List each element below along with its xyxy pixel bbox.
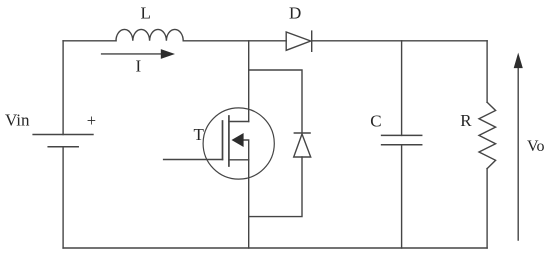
svg-text:Vo: Vo — [527, 138, 545, 155]
wire resistor branch lower — [486, 169, 488, 248]
transistor T bulk tail — [243, 140, 248, 160]
svg-text:Vin: Vin — [5, 110, 30, 129]
wire MOSFET drain vertical — [248, 41, 250, 122]
wire top rail middle segment — [183, 40, 286, 42]
wire top rail right segment — [312, 40, 487, 42]
transistor T source connection — [229, 159, 249, 161]
battery Vin plate short — [48, 146, 78, 148]
svg-text:C: C — [370, 112, 381, 131]
transistor T bulk arrow head — [232, 133, 244, 147]
svg-text:+: + — [87, 111, 96, 130]
svg-text:I: I — [136, 56, 142, 75]
diode D triangle — [286, 32, 311, 50]
body diode cathode bar — [294, 132, 310, 134]
wire left rail lower — [62, 147, 64, 248]
resistor R zigzag — [479, 102, 496, 168]
svg-text:L: L — [141, 4, 151, 23]
transistor T gate bar — [222, 121, 224, 160]
capacitor C plate top — [382, 134, 422, 136]
svg-text:D: D — [289, 4, 301, 23]
wire capacitor branch upper — [401, 41, 403, 136]
wire body-diode branch top — [249, 70, 302, 133]
transistor T drain connection — [229, 121, 249, 123]
wire bottom rail — [63, 247, 487, 249]
wire capacitor branch lower — [401, 145, 403, 248]
wire MOSFET source vertical — [248, 160, 250, 248]
wire left rail upper — [62, 41, 64, 135]
transistor T circle — [203, 108, 274, 179]
transistor T gate lead wire — [164, 159, 223, 161]
Vo arrow line — [517, 66, 519, 240]
svg-text:T: T — [194, 125, 205, 144]
inductor L — [116, 29, 183, 40]
wire body-diode branch bottom — [249, 157, 302, 217]
Vo arrow head — [514, 53, 523, 69]
capacitor C plate bottom — [382, 144, 422, 146]
battery Vin plate long — [33, 134, 93, 136]
current arrow I head — [161, 49, 175, 59]
body diode triangle — [294, 134, 311, 157]
wire top rail left segment — [63, 40, 116, 42]
diode D cathode bar — [311, 31, 313, 51]
transistor T channel bar — [228, 116, 230, 166]
current arrow I line — [102, 53, 162, 55]
svg-text:R: R — [460, 111, 472, 130]
wire resistor branch upper — [486, 41, 488, 102]
